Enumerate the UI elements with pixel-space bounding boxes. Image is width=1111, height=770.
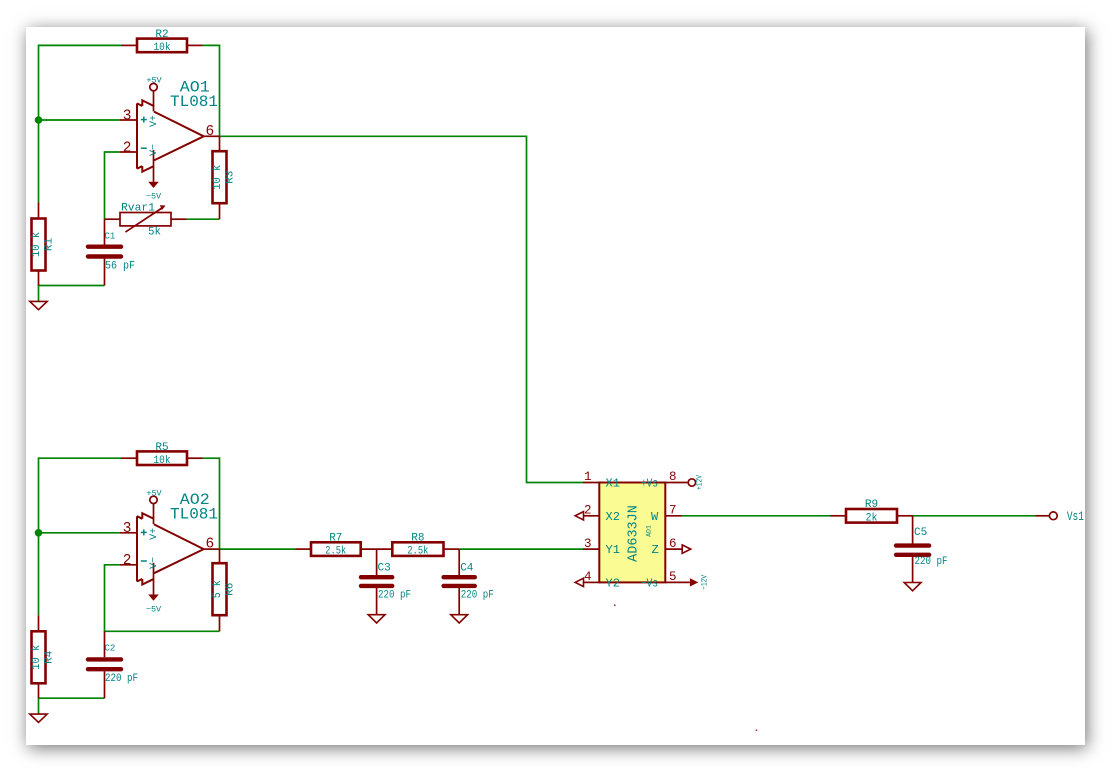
svg-text:7: 7 [669,504,677,518]
svg-text:220 pF: 220 pF [378,589,411,601]
pin 2 X2 [575,512,599,520]
svg-text:10 k: 10 k [212,164,224,189]
wire: R2 right to output node [203,45,220,136]
wire: R5 right to output node [203,458,220,549]
svg-text:4: 4 [584,570,592,584]
node: junction at R1/R2/pin3 rail [35,116,43,124]
capacitor C5 [896,516,929,583]
svg-text:+5V: +5V [146,76,162,86]
pin 4 Y2 [575,578,599,586]
svg-text:Y2: Y2 [606,577,620,591]
svg-text:8: 8 [669,470,677,484]
svg-text:R3: R3 [225,171,237,184]
wire: Rvar1 right to R3 bottom [187,218,220,220]
svg-text:6: 6 [669,537,677,551]
svg-text:10 k: 10 k [31,644,43,669]
resistor R6 [213,549,227,631]
ground GND4 [451,615,468,623]
svg-text:Z: Z [652,543,659,557]
ground GND3 [368,615,385,623]
svg-text:R8: R8 [411,532,424,544]
wire: ground rail AO1 [39,286,105,302]
wire: AO1 output long run to AD633 X1 [220,136,584,482]
capacitor C1 [88,219,121,285]
svg-text:R2: R2 [155,29,168,41]
svg-text:220 pF: 220 pF [461,589,494,601]
svg-text:TL081: TL081 [170,93,218,111]
svg-text:−5V: −5V [146,192,162,202]
capacitor C4 [444,549,475,615]
wire: AO2 pin3 input [39,532,121,534]
wire: AO2 output to R7 [220,548,296,550]
svg-text:2: 2 [584,504,592,518]
potentiometer Rvar1 [105,205,187,232]
svg-text:+5V: +5V [146,488,162,498]
wire: AO2 pin2 feedback loop [105,565,220,632]
svg-text:5k: 5k [148,227,161,239]
svg-text:+Vs: +Vs [641,477,658,491]
svg-text:2.5k: 2.5k [407,546,428,558]
svg-text:Vs1: Vs1 [1067,510,1084,524]
resistor R8 [392,542,459,556]
pin 1 X1 [583,482,599,484]
svg-text:2k: 2k [866,512,878,524]
resistor R3 [213,136,227,219]
svg-text:R5: R5 [155,442,168,454]
svg-text:R7: R7 [329,532,342,544]
resistor R4 [32,615,46,698]
svg-text:C4: C4 [460,563,474,575]
svg-text:6: 6 [206,124,215,140]
svg-text:R1: R1 [44,238,56,252]
svg-text:2.5k: 2.5k [325,546,346,558]
power +12V [688,479,695,486]
ground GND1 [30,301,47,309]
opamp AO1 input +/- marks [141,117,147,149]
wire: R7 to R8 (red net stubs) [361,548,393,550]
svg-text:C5: C5 [914,527,927,539]
svg-text:C1: C1 [105,232,116,242]
svg-text:220 pF: 220 pF [105,673,138,685]
svg-text:V−: V− [149,144,160,156]
svg-text:−Vs: −Vs [641,577,658,591]
resistor R7 [296,542,361,556]
node: stray dot 1 [614,605,616,607]
svg-text:R9: R9 [865,499,878,511]
svg-text:AD633JN: AD633JN [627,505,642,562]
capacitor C3 [361,549,392,615]
resistor R1 [32,203,46,286]
svg-text:1: 1 [584,470,592,484]
pin 5 -Vs [665,581,690,583]
wire: ground rail AO2 [39,698,105,714]
svg-text:5 k: 5 k [212,580,224,598]
svg-text:10k: 10k [154,455,171,467]
svg-text:−5V: −5V [146,604,162,614]
ground GND2 [30,714,47,722]
svg-text:C2: C2 [105,643,116,653]
node: stray dot 2 [756,730,758,732]
svg-text:W: W [651,510,659,524]
pin 6 Z [665,545,690,553]
power -12V [690,578,698,586]
svg-text:V−: V− [149,557,160,569]
pin 3 Y1 [583,548,599,550]
IC body AD1 AD633JN [599,483,665,583]
wire: AO1 pin3 input [39,119,121,121]
op-amp AO1 TL081 [120,100,220,171]
svg-text:R6: R6 [225,583,237,596]
wire: R8 to AD633 Y1 [459,548,583,550]
node: junction at R4/R5/pin3 rail [35,529,43,537]
svg-text:5: 5 [669,570,677,584]
capacitor C2 [88,631,121,698]
svg-text:6: 6 [206,537,215,553]
svg-text:3: 3 [123,108,132,124]
svg-text:3: 3 [584,537,592,551]
power +5V at AO1 pin7 [153,91,155,112]
svg-text:Y1: Y1 [606,543,620,557]
svg-text:2: 2 [123,140,132,156]
port Vs1 [1049,512,1057,520]
svg-text:AD1: AD1 [646,525,653,537]
power -5V at AO1 pin4 [153,150,155,182]
resistor R5 [121,451,203,465]
wire: W to R9 [682,515,831,517]
svg-text:−12V: −12V [701,575,710,590]
svg-text:10 k: 10 k [31,232,43,257]
svg-text:V+: V+ [149,115,160,127]
wire: R9 to output port [913,515,1036,517]
wire: left rail top AO2 [39,458,122,615]
resistor R9 [831,509,913,523]
svg-text:220 pF: 220 pF [915,556,948,568]
svg-text:10k: 10k [154,42,171,54]
svg-text:TL081: TL081 [170,506,218,524]
pin 8 +Vs [665,482,688,484]
wire: AO1 pin2 to Rvar1/C1 node [105,152,121,219]
ground GND5 [904,583,921,591]
wire: left rail top AO1 [39,45,122,202]
svg-text:V+: V+ [149,528,160,540]
svg-text:R4: R4 [44,650,56,664]
svg-text:+12V: +12V [696,475,705,490]
svg-text:2: 2 [123,553,132,569]
pin 7 W [665,515,681,517]
power +5V at AO2 pin7 [153,504,155,525]
svg-text:3: 3 [123,521,132,537]
op-amp AO2 TL081 [120,513,220,584]
svg-text:Rvar1: Rvar1 [121,203,155,215]
svg-text:C3: C3 [378,563,391,575]
svg-text:X2: X2 [606,510,620,524]
power -5V at AO2 pin4 [153,563,155,595]
svg-text:X1: X1 [606,477,620,491]
opamp AO2 input +/- marks [141,529,147,561]
resistor R2 [121,39,203,53]
svg-text:56 pF: 56 pF [105,261,135,273]
